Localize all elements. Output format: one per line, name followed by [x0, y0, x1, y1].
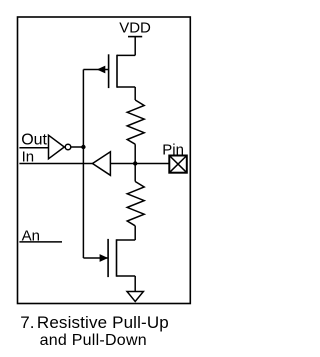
wire R2 to NMOS drain — [134, 226, 136, 240]
wire R1 to pin node — [134, 144, 136, 163]
wire NMOS source to ground — [134, 276, 136, 292]
wire pin net horizontal — [110, 163, 169, 165]
resistor R1 pull-up — [127, 100, 144, 144]
VDD rail symbol — [128, 36, 142, 38]
op-amp U2 input buffer — [93, 152, 111, 176]
transistor Q1 PMOS pull-up — [83, 54, 135, 88]
svg-text:Out: Out — [21, 132, 47, 149]
wire PMOS drain to R1 — [134, 87, 136, 100]
pad Pin I/O pad — [169, 156, 187, 173]
resistor R2 pull-down — [127, 182, 144, 226]
wire An stub — [19, 241, 62, 243]
wire In lead — [19, 163, 92, 165]
ground — [127, 292, 143, 302]
wire inverter output — [71, 146, 84, 148]
wire Out lead — [19, 147, 48, 149]
node gate net junction — [81, 145, 85, 149]
op-amp U1 output inverter — [49, 135, 71, 159]
node pin net junction — [133, 161, 137, 165]
transistor Q2 NMOS pull-down — [83, 239, 135, 277]
figure border box — [18, 17, 191, 304]
svg-text:and Pull-Down: and Pull-Down — [40, 332, 147, 349]
wire VDD stem — [134, 37, 136, 56]
svg-text:7.Resistive Pull-Up: 7.Resistive Pull-Up — [20, 313, 169, 332]
svg-text:VDD: VDD — [119, 20, 151, 37]
wire gate net vertical — [82, 70, 84, 259]
wire pin node to R2 — [134, 164, 136, 182]
